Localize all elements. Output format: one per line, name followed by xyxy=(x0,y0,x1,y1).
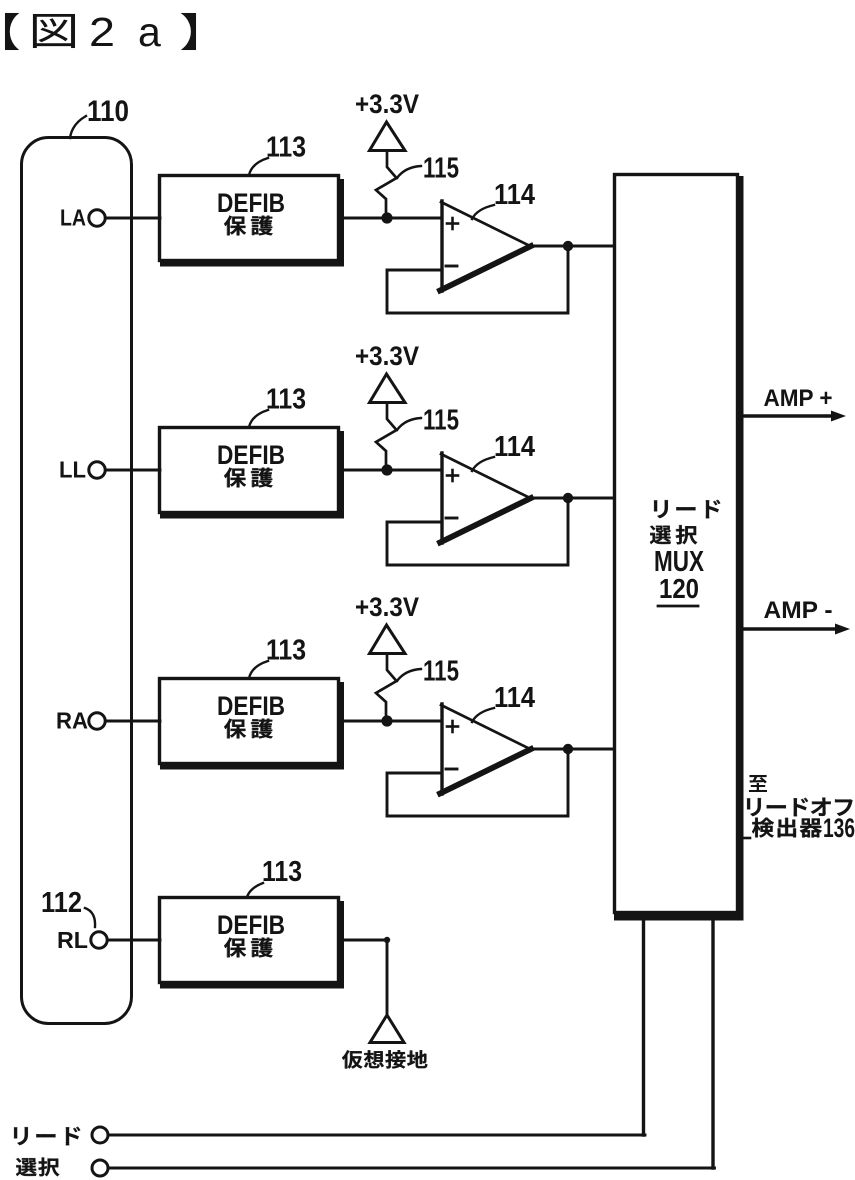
wire RL to DEFIB xyxy=(108,939,161,942)
DEFIB protection block 113 (RL row) xyxy=(160,898,345,989)
feedback wire (LL row) xyxy=(387,498,568,565)
svg-text:AMP -: AMP - xyxy=(764,597,833,624)
svg-text:114: 114 xyxy=(494,179,535,211)
leader 113 (RL row) xyxy=(247,883,263,897)
保護 text (LL row) xyxy=(224,468,273,488)
note 検出器 xyxy=(752,818,822,838)
MUX text リード xyxy=(654,500,720,518)
svg-text:110: 110 xyxy=(87,95,129,128)
wire op-amp to MUX (LA row) xyxy=(530,245,614,248)
DEFIB text (RL row) xyxy=(217,910,285,940)
svg-text:RA: RA xyxy=(56,708,88,734)
node resistor junction (RA row) xyxy=(381,715,392,726)
MUX text 選択 xyxy=(650,525,697,544)
svg-text:114: 114 xyxy=(494,682,535,714)
terminal RA label xyxy=(56,708,88,734)
AMP- output wire xyxy=(743,624,850,635)
terminal RA circle xyxy=(89,713,105,729)
label 114 (RA row) xyxy=(494,682,535,714)
node op-amp output (LL row) xyxy=(563,493,573,503)
svg-text:120: 120 xyxy=(659,573,699,604)
node op-amp output (LA row) xyxy=(563,241,573,251)
figure title bracket left xyxy=(5,13,19,50)
svg-text:+3.3V: +3.3V xyxy=(355,341,419,371)
feedback wire (RA row) xyxy=(387,749,568,816)
label 115 (RA row) xyxy=(423,656,459,688)
leader 112 xyxy=(85,908,95,927)
resistor 115 (LA row) xyxy=(376,152,397,218)
wire LA to DEFIB xyxy=(106,217,161,220)
op-amp 114 (LL row) xyxy=(440,453,531,543)
supply +3.3V triangle (LA row) xyxy=(370,122,406,151)
svg-text:112: 112 xyxy=(41,887,82,919)
leader 113 (LL row) xyxy=(249,410,268,427)
leader 114 (LL row) xyxy=(472,457,494,471)
supply +3.3V label (RA row) xyxy=(355,592,419,622)
lead select input 2 circle xyxy=(92,1160,108,1176)
wire DEFIB to virtual ground xyxy=(342,940,387,1015)
svg-text:LA: LA xyxy=(60,205,86,231)
terminal RL circle xyxy=(91,932,107,948)
svg-text:DEFIB: DEFIB xyxy=(217,188,285,218)
connector block 110 (rounded) xyxy=(22,138,132,1024)
tick lead-off xyxy=(743,837,750,840)
node op-amp output (RA row) xyxy=(563,744,573,754)
figure title 2 a xyxy=(89,9,161,55)
label 仮想接地 xyxy=(342,1050,427,1068)
label 113 (LL row) xyxy=(266,384,306,416)
MUX text 120 xyxy=(659,573,699,604)
svg-text:136: 136 xyxy=(823,813,855,843)
label 113 (RA row) xyxy=(266,635,306,667)
leader 114 (RA row) xyxy=(472,708,494,722)
op-amp 114 (RA row) xyxy=(440,704,531,794)
lead select input 1 circle xyxy=(92,1127,108,1143)
svg-text:DEFIB: DEFIB xyxy=(217,691,285,721)
note リードオフ xyxy=(747,798,852,816)
svg-text:115: 115 xyxy=(423,153,459,185)
DEFIB text (LL row) xyxy=(217,440,285,470)
保護 text (RA row) xyxy=(224,719,273,739)
svg-text:2: 2 xyxy=(89,9,115,55)
wire DEFIB to op-amp (LA row) xyxy=(342,217,442,220)
MUX text MUX xyxy=(654,546,705,578)
MUX 120 underline xyxy=(658,605,698,608)
leader 114 (LA row) xyxy=(472,205,494,219)
svg-text:115: 115 xyxy=(423,656,459,688)
terminal RL label xyxy=(57,927,88,953)
leader 113 (LA row) xyxy=(249,158,268,175)
DEFIB protection block 113 (RA row) xyxy=(160,679,345,770)
AMP+ label xyxy=(764,385,833,412)
note 136 xyxy=(823,813,855,843)
svg-text:+3.3V: +3.3V xyxy=(355,89,419,119)
virtual ground symbol xyxy=(370,1015,404,1043)
svg-text:DEFIB: DEFIB xyxy=(217,910,285,940)
supply +3.3V label (LA row) xyxy=(355,89,419,119)
label 113 (LA row) xyxy=(266,132,306,164)
wire DEFIB to op-amp (RA row) xyxy=(342,720,442,723)
label 113 (RL row) xyxy=(262,856,302,888)
wire lead select 1 xyxy=(108,1134,645,1137)
svg-text:115: 115 xyxy=(423,405,459,437)
label 115 (LL row) xyxy=(423,405,459,437)
resistor 115 (RA row) xyxy=(376,655,397,721)
op-amp 114 (LA row) xyxy=(440,201,531,291)
wire RA to DEFIB xyxy=(106,720,161,723)
wire MUX to lead select 1 xyxy=(642,918,645,1135)
AMP- label xyxy=(764,597,833,624)
label リード (lead) xyxy=(14,1127,80,1145)
supply +3.3V triangle (LL row) xyxy=(370,374,406,403)
AMP+ output wire xyxy=(743,411,846,422)
label 114 (LL row) xyxy=(494,431,535,463)
wire DEFIB to op-amp (LL row) xyxy=(342,469,442,472)
leader 115 (LA row) xyxy=(397,166,421,178)
label 110 xyxy=(87,95,129,128)
label 115 (LA row) xyxy=(423,153,459,185)
terminal LL circle xyxy=(89,462,105,478)
supply +3.3V triangle (RA row) xyxy=(370,625,406,654)
wire op-amp to MUX (RA row) xyxy=(530,748,614,751)
DEFIB text (RA row) xyxy=(217,691,285,721)
terminal LL label xyxy=(59,457,86,483)
svg-text:113: 113 xyxy=(266,132,306,164)
wire lead select 2 xyxy=(108,1167,715,1170)
svg-text:LL: LL xyxy=(59,457,86,483)
svg-text:113: 113 xyxy=(266,635,306,667)
DEFIB text (LA row) xyxy=(217,188,285,218)
svg-text:DEFIB: DEFIB xyxy=(217,440,285,470)
svg-text:114: 114 xyxy=(494,431,535,463)
supply +3.3V label (LL row) xyxy=(355,341,419,371)
node resistor junction (LL row) xyxy=(381,464,392,475)
svg-text:113: 113 xyxy=(262,856,302,888)
DEFIB protection block 113 (LA row) xyxy=(160,176,345,267)
保護 text (RL row) xyxy=(224,938,273,958)
svg-text:AMP +: AMP + xyxy=(764,385,833,412)
wire op-amp to MUX (LL row) xyxy=(530,497,614,500)
terminal LA label xyxy=(60,205,86,231)
svg-text:a: a xyxy=(138,9,161,55)
leader 113 (RA row) xyxy=(249,661,268,678)
wire LL to DEFIB xyxy=(106,469,161,472)
DEFIB protection block 113 (LL row) xyxy=(160,428,345,519)
terminal LA circle xyxy=(89,210,105,226)
MUX block 120 xyxy=(614,175,744,921)
svg-text:RL: RL xyxy=(57,927,88,953)
label 114 (LA row) xyxy=(494,179,535,211)
figure title kanji 図 xyxy=(33,14,75,48)
figure title bracket right xyxy=(181,13,196,50)
svg-text:113: 113 xyxy=(266,384,306,416)
resistor 115 (LL row) xyxy=(376,404,397,470)
保護 text (LA row) xyxy=(224,216,273,236)
note 至 xyxy=(749,775,767,792)
label 選択 (select) xyxy=(16,1158,59,1177)
feedback wire (LA row) xyxy=(387,246,568,313)
svg-text:+3.3V: +3.3V xyxy=(355,592,419,622)
leader 115 (RA row) xyxy=(397,669,421,681)
leader 115 (LL row) xyxy=(397,418,421,430)
node corner RL xyxy=(384,937,390,943)
label 112 xyxy=(41,887,82,919)
node resistor junction (LA row) xyxy=(381,212,392,223)
wire MUX to lead select 2 xyxy=(711,918,714,1168)
leader 110 xyxy=(70,116,86,138)
